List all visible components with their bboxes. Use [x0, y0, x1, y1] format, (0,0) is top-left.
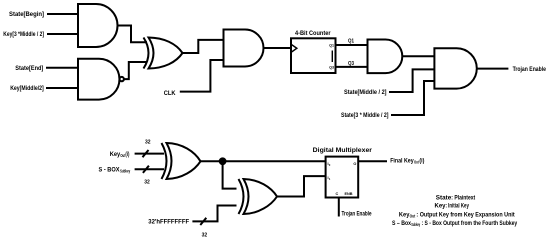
svg-text:Key: Key	[435, 204, 447, 210]
svg-text:Key[3 *Middle / 2]: Key[3 *Middle / 2]	[3, 31, 44, 38]
bus slash 32'h	[200, 218, 206, 225]
NAND U2 output bubble	[120, 77, 124, 81]
XOR gate U8 rear arc	[162, 143, 167, 179]
svg-text:Q3: Q3	[329, 66, 334, 70]
svg-text:CLK: CLK	[164, 90, 176, 97]
svg-text:Final Key: Final Key	[390, 157, 414, 164]
svg-text:State[Middle / 2]: State[Middle / 2]	[344, 89, 387, 96]
svg-text:State[End]: State[End]	[15, 65, 43, 72]
svg-text:Digital Multiplexer: Digital Multiplexer	[313, 147, 373, 154]
XOR gate U9 rear arc	[239, 179, 244, 214]
AND gate U6 (Q1 AND Q3)	[368, 40, 403, 74]
svg-text:: S - Box Output from the Four: : S - Box Output from the Fourth Subkey	[422, 221, 518, 227]
svg-text:32: 32	[145, 140, 151, 146]
svg-text:Key: Key	[110, 151, 121, 158]
AND gate U7 (3-input trigger AND)	[434, 48, 476, 88]
wire Q3 to AND U6	[336, 66, 368, 68]
wire State[Middle/2] to AND U7 middle input	[389, 69, 434, 92]
svg-text:C: C	[336, 192, 339, 196]
wire mux output Final KeyOut	[358, 160, 387, 162]
AND gate U1 (State[Begin] AND Key[3*Middle/2])	[78, 4, 118, 47]
bus slash KeyOut 32	[143, 150, 149, 157]
svg-text:O: O	[353, 162, 356, 166]
AND gate U4 (XOR out AND CLK)	[224, 30, 264, 67]
svg-text:Q1: Q1	[329, 43, 334, 47]
counter clock chevron	[291, 44, 297, 52]
wire CLK to AND U4 bottom input	[180, 60, 224, 92]
counter pin ellipsis line	[331, 51, 333, 63]
wire U1 output to XOR U3 top input	[118, 26, 148, 43]
svg-text:Q1: Q1	[348, 39, 355, 45]
wire U2 output to XOR U3 bottom input	[124, 62, 147, 79]
svg-text:Key: Key	[399, 212, 410, 218]
wire Key[Middle/2] to NAND U2	[46, 87, 78, 89]
wire 32'hFFFFFFFF to XOR U9 bottom input	[192, 206, 236, 222]
svg-text:Subkey: Subkey	[411, 222, 420, 227]
svg-text:ENB: ENB	[345, 192, 353, 196]
svg-text:S - BOX: S - BOX	[99, 167, 121, 174]
wire Key[3*Middle/2] to AND1	[47, 33, 78, 35]
svg-text:Out: Out	[410, 214, 416, 219]
wire U8 output to MUX input I0	[201, 160, 326, 162]
wire S-BOX to XOR U8	[135, 168, 164, 170]
bus slash S-BOX 32	[143, 166, 149, 173]
svg-text:State: State	[436, 195, 452, 201]
svg-text:32: 32	[144, 180, 150, 186]
NAND gate U2 (State[End] NAND Key[Middle/2])	[78, 59, 119, 100]
svg-text:32'hFFFFFFFF: 32'hFFFFFFFF	[148, 219, 189, 226]
svg-text:(i): (i)	[419, 157, 424, 164]
svg-text:: Plaintext: : Plaintext	[451, 195, 475, 201]
svg-text:: Initial Key: : Initial Key	[446, 204, 470, 210]
XOR gate U8 body	[167, 143, 201, 179]
XOR gate U3 rear arc	[144, 38, 149, 69]
wire State[3*Middle/2] to AND U7 bottom input	[391, 81, 434, 115]
svg-text:Trojan Enable: Trojan Enable	[513, 66, 547, 73]
XOR gate U9 body	[244, 179, 278, 214]
svg-text:State[Begin]: State[Begin]	[9, 11, 44, 18]
digital multiplexer U10 box	[326, 157, 359, 198]
wire U6 output to AND U7 top input	[402, 55, 434, 57]
wire Trojan Enable to mux select	[338, 198, 340, 217]
4-bit counter U5 box	[291, 38, 336, 73]
wire U3 output to AND U4 top input	[183, 40, 224, 53]
svg-text:(i): (i)	[125, 151, 129, 158]
svg-text:Out: Out	[414, 160, 419, 165]
svg-text:4-Bit Counter: 4-Bit Counter	[295, 30, 331, 37]
wire junction down to XOR U9 top input	[223, 161, 237, 188]
svg-text:Subkey: Subkey	[120, 169, 131, 174]
wire State[End] to NAND U2	[46, 67, 78, 69]
wire Q1 to AND U6	[336, 44, 368, 46]
wire U9 output to MUX input I1	[277, 176, 326, 196]
XOR gate U3 body	[149, 38, 183, 69]
svg-text:State[3 * Middle / 2]: State[3 * Middle / 2]	[341, 112, 389, 119]
junction node dot	[220, 158, 226, 164]
svg-text:32: 32	[202, 232, 208, 238]
wire U4 output to counter clock input	[264, 47, 292, 49]
wire U7 output Trojan Enable	[477, 68, 509, 70]
svg-text:Trojan Enable: Trojan Enable	[342, 211, 372, 218]
svg-text:Key[Middle/2]: Key[Middle/2]	[10, 85, 44, 92]
svg-text:S – Box: S – Box	[392, 221, 412, 227]
svg-text:: Output Key from Key Expansio: : Output Key from Key Expansion Unit	[416, 212, 514, 218]
wire State[Begin] to AND1	[47, 13, 78, 15]
wire KeyOut(i) to XOR U8	[135, 153, 164, 155]
